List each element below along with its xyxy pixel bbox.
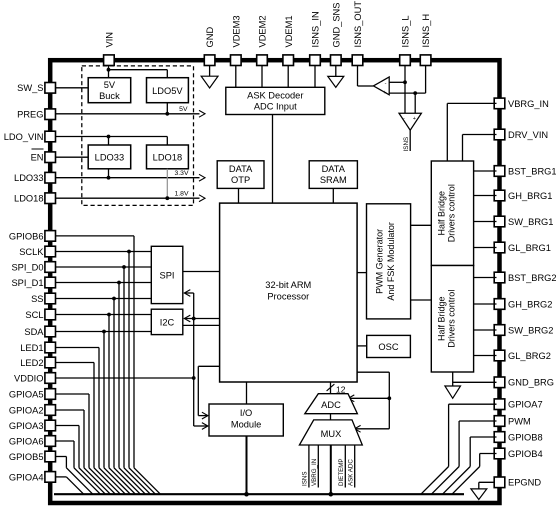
pin EN (left) [45, 152, 56, 163]
svg-text:SPI_D0: SPI_D0 [11, 262, 43, 272]
wire ISNS_IN into ASK decoder [314, 66, 316, 88]
ground symbol under GND_SNS [328, 76, 344, 87]
svg-text:SW_BRG2: SW_BRG2 [508, 325, 553, 335]
svg-text:MUX: MUX [321, 429, 342, 439]
svg-text:And FSK Modulator: And FSK Modulator [386, 222, 396, 301]
wire LDO18 output drop [166, 169, 168, 198]
ground symbol under GND [201, 76, 218, 88]
wire GPIOA2 staircase [56, 409, 85, 411]
svg-text:GPIOB5: GPIOB5 [9, 452, 44, 462]
trapezoid MUX [299, 420, 362, 445]
wire peripheral bus vertical [193, 293, 195, 426]
svg-text:LDO18: LDO18 [14, 194, 43, 204]
svg-text:LDO18: LDO18 [153, 152, 182, 162]
wire LDO_VIN to LDO18 [56, 136, 168, 138]
svg-text:LDO33: LDO33 [95, 152, 124, 162]
junction on 5V rail [165, 112, 169, 116]
pin GH_BRG1 (right) [494, 190, 505, 201]
pin LED2 (left) [45, 357, 56, 368]
junction LDO_VIN branch [107, 135, 111, 139]
pin GL_BRG1 (right) [494, 242, 505, 253]
pin ISNS_L (top) [400, 55, 411, 66]
wire GPIOA4 to bus [56, 476, 67, 478]
wire half bridge 2 to GH_BRG2 [474, 303, 497, 305]
svg-text:GPIOA2: GPIOA2 [9, 405, 44, 415]
wire half bridge 2 to GL_BRG2 [474, 355, 497, 357]
svg-text:Processor: Processor [267, 292, 309, 302]
svg-text:PWM: PWM [508, 416, 531, 426]
bottom internal bus [54, 493, 464, 495]
svg-text:VDEM3: VDEM3 [231, 15, 241, 47]
wire branch down to ISNS amp [414, 93, 416, 113]
pin GPIOB6 (left) [45, 231, 56, 242]
wire ASK decoder output to ARM [272, 115, 274, 204]
svg-text:EPGND: EPGND [508, 478, 541, 488]
wire GND_BRG [453, 381, 497, 383]
wire half bridge 1 to GH_BRG1 [474, 195, 497, 197]
wire ARM to PWM generator [357, 272, 366, 274]
block DATA SRAM [309, 161, 357, 189]
wire VIN branch to LDO5V [109, 69, 168, 71]
pin EPGND (right) [494, 477, 505, 488]
junction peripheral bus x I2C line [192, 317, 196, 321]
svg-text:Drivers control: Drivers control [447, 290, 457, 348]
wire half bridge 1 to BST_BRG1 [474, 170, 497, 172]
wire LDO5V output drop [166, 103, 168, 114]
pin GPIOB8 (right) [494, 432, 505, 443]
svg-text:DIETEMP: DIETEMP [338, 458, 345, 486]
svg-text:GPIOA7: GPIOA7 [508, 400, 543, 410]
junction MUX at bus [329, 492, 334, 497]
pin LDO18 (left) [45, 193, 56, 204]
junction select bus [387, 396, 391, 400]
wire amp top input from ISNS_L [389, 81, 405, 83]
wire half bridge 2 to BST_BRG2 [474, 277, 497, 279]
arrow 3.3V rail [199, 174, 205, 181]
block DATA OTP [217, 161, 264, 189]
svg-text:GND: GND [205, 27, 215, 48]
wire ARM right to ADC/MUX select [357, 371, 389, 373]
pin PREG (left) [45, 109, 56, 120]
svg-text:PWM Generator: PWM Generator [375, 229, 385, 294]
svg-text:GPIOB6: GPIOB6 [9, 231, 44, 241]
svg-text:SPI_D1: SPI_D1 [11, 278, 43, 288]
svg-text:ISNS: ISNS [403, 137, 410, 152]
svg-text:DATA: DATA [229, 164, 253, 174]
pin SW_BRG2 (right) [494, 325, 505, 336]
wire ISNS_H down [425, 66, 427, 94]
wire branch down to LDO33 [108, 137, 110, 146]
block SPI [151, 246, 183, 303]
wire half bridge 2 to SW_BRG2 [474, 329, 497, 331]
wire MUX input ASK ADC [354, 445, 356, 488]
svg-text:12: 12 [336, 384, 346, 394]
wire MUX input ISNS [308, 445, 310, 488]
svg-text:GPIOA3: GPIOA3 [9, 421, 44, 431]
wire SS staircase [56, 298, 152, 300]
svg-text:32-bit ARM: 32-bit ARM [265, 280, 311, 290]
wire amp bottom input from ISNS_H [389, 92, 425, 94]
wire VDEM2 into ASK decoder [261, 66, 263, 88]
wire half bridge 1 to GL_BRG1 [474, 247, 497, 249]
svg-text:BST_BRG2: BST_BRG2 [508, 273, 556, 283]
svg-text:5V: 5V [104, 80, 116, 90]
svg-text:3.3V: 3.3V [175, 170, 189, 177]
pin GND_BRG (right) [494, 377, 505, 388]
pin SCL (left) [45, 309, 56, 320]
wire half bridge 1 to SW_BRG1 [474, 221, 497, 223]
block ASK Decoder / ADC Input [226, 87, 325, 114]
wire GPIOA5 staircase [56, 393, 90, 395]
pin SCLK (left) [45, 246, 56, 257]
wire GPIOA6 staircase [56, 440, 75, 442]
block Half Bridge Drivers control 1 [431, 161, 473, 266]
wire GPIOB5 to bus [56, 456, 67, 458]
wire MUX input DIETEMP [344, 445, 346, 488]
wire DRV_VIN to half bridge drivers [463, 134, 497, 136]
pin GPIOA4 (left) [45, 472, 56, 483]
pin GPIOA7 (right) [494, 399, 505, 410]
svg-text:LED1: LED1 [20, 343, 43, 353]
svg-text:GPIOB8: GPIOB8 [508, 432, 543, 442]
svg-text:GPIOA5: GPIOA5 [9, 389, 44, 399]
pin LDO_VIN (left) [45, 131, 56, 142]
wire SW_S to 5V Buck [56, 87, 89, 89]
wire ISNS_OUT to amp output [357, 66, 359, 87]
block 5V Buck [88, 78, 131, 103]
pin SS (left) [45, 293, 56, 304]
svg-text:+: + [413, 116, 416, 122]
junction on 1.8V rail [165, 196, 169, 200]
pin DRV_VIN (right) [494, 129, 505, 140]
svg-text:GL_BRG1: GL_BRG1 [508, 243, 551, 253]
pin ISNS_IN (top) [310, 55, 321, 66]
block I/O Module [209, 404, 283, 436]
pin GPIOB4 (right) [494, 448, 505, 459]
wire GPIOA7 to bus [449, 403, 497, 405]
pin ISNS_OUT (top) [352, 55, 363, 66]
block LDO18 [147, 145, 189, 169]
arrow 1.8V rail [199, 195, 205, 202]
svg-text:LDO33: LDO33 [14, 173, 43, 183]
junction VIN branch [107, 68, 111, 72]
block Half Bridge Drivers control 2 [431, 266, 473, 373]
svg-text:GH_BRG1: GH_BRG1 [508, 191, 552, 201]
wire LED1 staircase [56, 347, 100, 349]
wire GND stub [209, 66, 211, 77]
svg-text:ASK Decoder: ASK Decoder [247, 90, 303, 100]
svg-text:GND_BRG: GND_BRG [508, 378, 554, 388]
wire SDA staircase [56, 331, 152, 333]
svg-text:ISNS_L: ISNS_L [401, 15, 411, 47]
block PWM Generator And FSK Modulator [367, 204, 411, 319]
svg-text:I2C: I2C [160, 317, 175, 327]
wire GND_SNS stub [335, 66, 337, 77]
wire SPI_D0 staircase [56, 266, 152, 268]
pin SW_BRG1 (right) [494, 216, 505, 227]
svg-text:GPIOB4: GPIOB4 [508, 449, 543, 459]
block I2C [151, 309, 183, 334]
pin GPIOB5 (left) [45, 451, 56, 462]
trapezoid ADC [305, 394, 358, 414]
svg-text:SRAM: SRAM [320, 175, 347, 185]
svg-text:PREG: PREG [17, 110, 43, 120]
pin BST_BRG2 (right) [494, 272, 505, 283]
wire ARM to ADC with bus width 12 [330, 382, 332, 394]
svg-text:VIN: VIN [105, 32, 115, 48]
pin SDA (left) [45, 326, 56, 337]
ground symbol GND_BRG [445, 386, 461, 398]
wire 3.3V rail from LDO33 pin [56, 177, 200, 179]
svg-text:Half Bridge: Half Bridge [437, 296, 447, 341]
pin LDO33 (left) [45, 172, 56, 183]
wire DATA OTP to ARM [238, 188, 240, 203]
pin VDEM1 (top) [283, 55, 294, 66]
svg-text:GPIOA6: GPIOA6 [9, 436, 44, 446]
wire arrow into I2C / link to ARM [185, 318, 220, 320]
svg-text:GND_SNS: GND_SNS [331, 3, 341, 48]
wire I2C to ARM [183, 324, 220, 326]
wire DATA SRAM to ARM [332, 188, 334, 203]
wire PWM generator to half bridge 2 [411, 299, 432, 301]
svg-text:BST_BRG1: BST_BRG1 [508, 166, 556, 176]
wire GPIOB8 to bus [470, 436, 496, 438]
wire EN to LDO33 [56, 156, 89, 158]
svg-text:VDDIO: VDDIO [14, 373, 43, 383]
wire 5V output rail from PREG [56, 113, 200, 115]
block LDO5V [147, 78, 189, 103]
svg-text:LDO5V: LDO5V [152, 86, 183, 96]
pin VDDIO (left) [45, 373, 56, 384]
svg-text:LED2: LED2 [20, 358, 43, 368]
svg-text:SW_BRG1: SW_BRG1 [508, 217, 553, 227]
pin VDEM2 (top) [257, 55, 268, 66]
junction bottom input branch [413, 91, 417, 95]
wire GPIOB4 to bus [480, 453, 497, 455]
pin PWM (right) [494, 416, 505, 427]
svg-text:GPIOA4: GPIOA4 [9, 472, 44, 482]
svg-text:ISNS_OUT: ISNS_OUT [353, 1, 363, 48]
wire ADC to MUX [330, 414, 332, 420]
svg-text:Half Bridge: Half Bridge [437, 191, 447, 236]
svg-text:EN: EN [31, 153, 44, 163]
svg-text:5V: 5V [179, 106, 188, 113]
wire EPGND to ground [479, 481, 495, 483]
svg-text:VBRG_IN: VBRG_IN [311, 459, 318, 486]
svg-text:OTP: OTP [231, 175, 250, 185]
pin ISNS_H (top) [420, 55, 431, 66]
dashed boundary of power-management section [82, 66, 194, 206]
junction on 3.3V rail [107, 176, 111, 180]
block 32-bit ARM Processor [220, 203, 358, 382]
wire I/O module to bottom bus [246, 436, 248, 494]
wire SCLK staircase [56, 251, 152, 253]
svg-text:I/O: I/O [240, 408, 252, 418]
svg-text:SCLK: SCLK [19, 247, 44, 257]
wire VIN down from pin [108, 66, 110, 79]
svg-text:Buck: Buck [99, 91, 120, 101]
pin LED1 (left) [45, 342, 56, 353]
svg-text:Drivers control: Drivers control [447, 184, 457, 242]
wire PWM to bus [459, 420, 496, 422]
pin VIN (top) [104, 55, 115, 66]
svg-text:DATA: DATA [322, 164, 346, 174]
svg-text:VDEM2: VDEM2 [258, 15, 268, 47]
svg-text:-: - [403, 116, 405, 122]
svg-text:ADC Input: ADC Input [254, 102, 297, 112]
block LDO33 [88, 145, 131, 169]
svg-text:SS: SS [31, 294, 43, 304]
pin GPIOA5 (left) [45, 389, 56, 400]
pin SW_S (left) [45, 83, 56, 94]
svg-text:LDO_VIN: LDO_VIN [4, 132, 44, 142]
wire MUX output to bus [330, 445, 332, 494]
svg-text:+: + [383, 90, 386, 96]
pin BST_BRG1 (right) [494, 166, 505, 177]
wire arrow into SPI from peripheral bus [185, 292, 194, 294]
wire LDO33 output drop [108, 169, 110, 178]
wire LED2 staircase [56, 362, 95, 364]
svg-text:VBRG_IN: VBRG_IN [508, 99, 549, 109]
svg-text:GH_BRG2: GH_BRG2 [508, 299, 552, 309]
block OSC [367, 335, 411, 357]
wire SPI_D1 staircase [56, 282, 152, 284]
pin SPI_D0 (left) [45, 262, 56, 273]
adc select arrow [350, 397, 389, 399]
svg-text:SCL: SCL [25, 310, 43, 320]
pin GPIOA6 (left) [45, 436, 56, 447]
wire SPI to ARM [183, 271, 220, 273]
arrow 5V rail [199, 110, 205, 117]
op-amp current sense (left-pointing) [373, 77, 389, 95]
wire MUX input VBRG_IN [317, 445, 319, 488]
svg-text:SW_S: SW_S [17, 83, 43, 93]
pin GPIOA3 (left) [45, 420, 56, 431]
svg-text:ISNS_H: ISNS_H [421, 14, 431, 48]
wire SCL staircase [56, 314, 152, 316]
wire ARM bottom to I/O module top [246, 382, 248, 404]
pin GL_BRG2 (right) [494, 350, 505, 361]
svg-text:ISNS: ISNS [302, 472, 309, 486]
svg-text:SDA: SDA [24, 327, 44, 337]
junction I/O at bus [244, 492, 249, 497]
wire VBRG_IN to half bridge drivers [447, 102, 496, 104]
wire GPIOB6 staircase [56, 235, 135, 237]
ground symbol EPGND [471, 489, 487, 500]
wire ISNS amp output [409, 130, 411, 151]
svg-text:1.8V: 1.8V [175, 191, 189, 198]
mux select arrow [356, 428, 389, 430]
junction top input x ISNS_L [403, 80, 407, 84]
wire VDEM1 into ASK decoder [287, 66, 289, 88]
pin GND_SNS (top) [331, 55, 342, 66]
svg-text:OSC: OSC [378, 342, 398, 352]
wire VDDIO to peripheral bus [56, 377, 194, 379]
wire VDEM3 into ASK decoder [235, 66, 237, 88]
wire ISNS_L down to ISNS amp [404, 66, 406, 114]
svg-text:ADC: ADC [321, 400, 341, 410]
pin VDEM3 (top) [231, 55, 242, 66]
svg-text:ISNS_IN: ISNS_IN [311, 11, 321, 47]
svg-text:DRV_VIN: DRV_VIN [508, 130, 548, 140]
svg-text:-: - [385, 80, 387, 86]
svg-text:VDEM1: VDEM1 [284, 15, 294, 47]
pin GPIOA2 (left) [45, 405, 56, 416]
IC package outline [50, 60, 499, 503]
svg-text:GL_BRG2: GL_BRG2 [508, 351, 551, 361]
wire 1.8V rail from LDO18 pin [56, 197, 200, 199]
wire PWM generator to half bridge 1 [411, 224, 432, 226]
pin SPI_D1 (left) [45, 277, 56, 288]
svg-text:Module: Module [231, 420, 262, 430]
wire ARM left to I/O module [198, 365, 219, 367]
pin GH_BRG2 (right) [494, 299, 505, 310]
wire OSC to ARM [357, 345, 367, 347]
wire GPIOA3 staircase [56, 425, 80, 427]
pin VBRG_IN (right) [494, 98, 505, 109]
wire peripheral bus into I/O module [194, 425, 208, 427]
pin GND (top) [204, 55, 215, 66]
svg-text:ASK ADC: ASK ADC [348, 459, 355, 486]
svg-text:SPI: SPI [160, 270, 175, 280]
op-amp ISNS (down-pointing) [399, 113, 421, 130]
